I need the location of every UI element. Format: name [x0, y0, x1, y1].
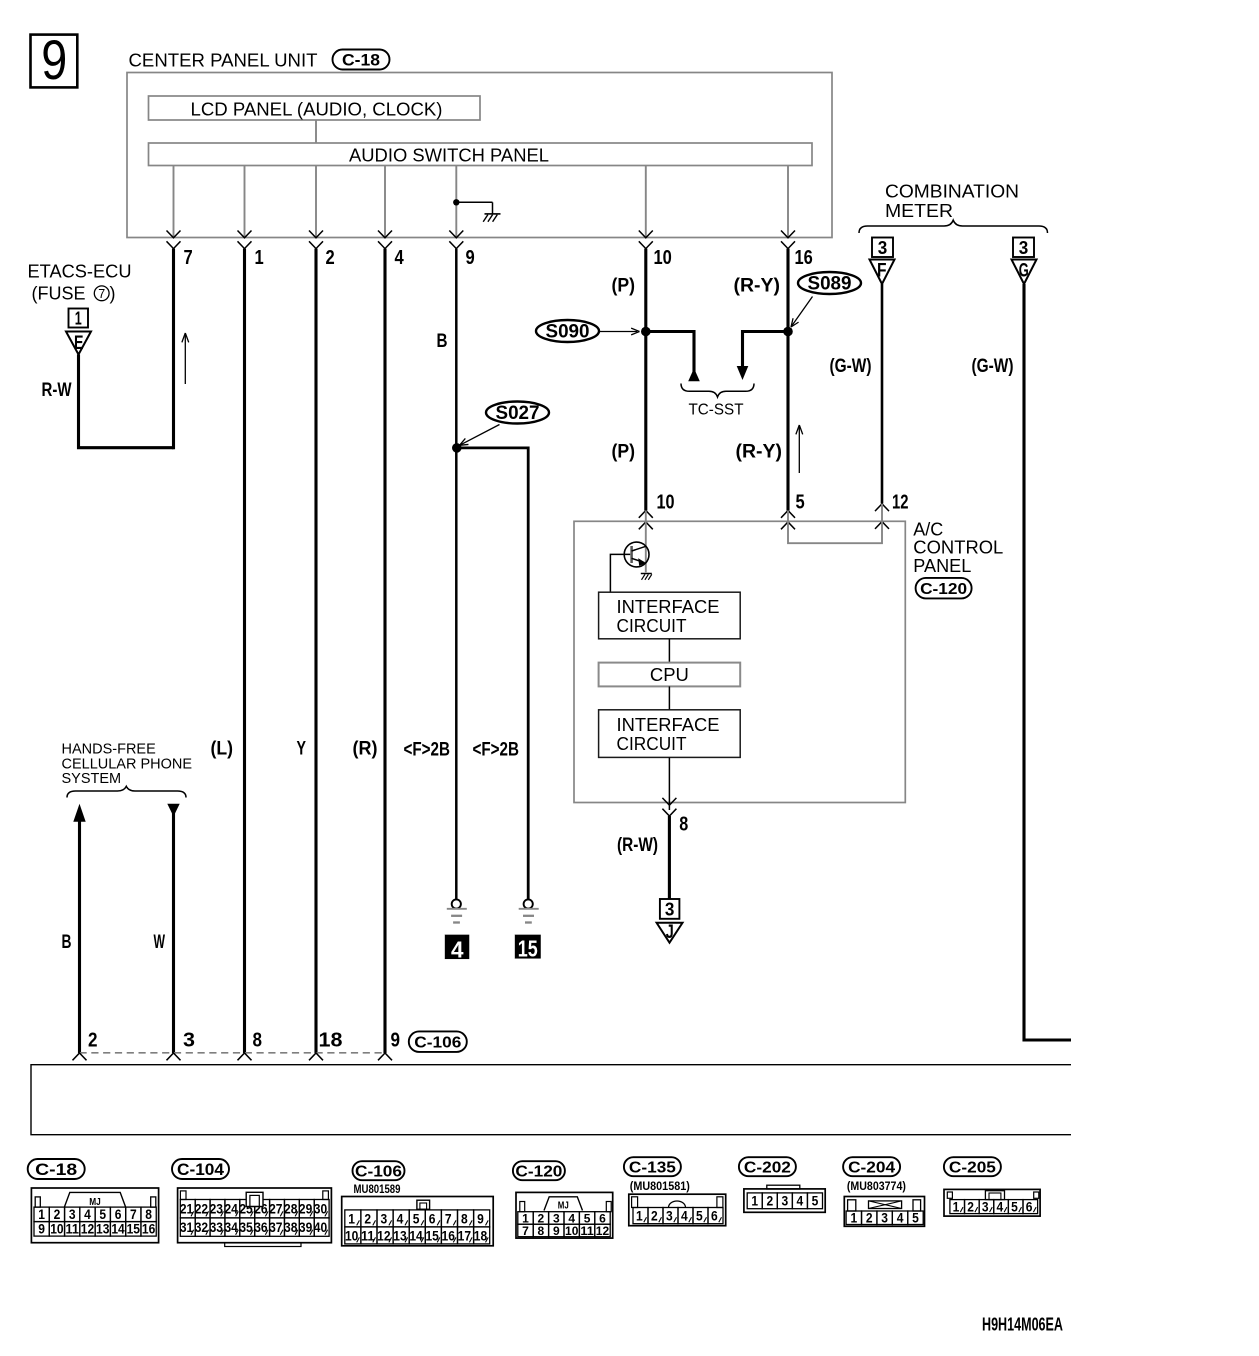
brace TC-SST [681, 384, 754, 398]
wire interface1 to CPU [668, 639, 670, 663]
ground id 15 [515, 935, 541, 959]
svg-text:(R-Y): (R-Y) [734, 276, 781, 297]
svg-text:3: 3 [1019, 238, 1029, 258]
connector C-106 pin 9 arrow [378, 1053, 392, 1060]
svg-text:7: 7 [98, 287, 105, 301]
svg-text:8: 8 [253, 1029, 263, 1051]
svg-text:10: 10 [657, 492, 675, 514]
svg-text:F: F [877, 260, 887, 281]
svg-text:2: 2 [766, 1194, 773, 1209]
svg-text:C-106: C-106 [355, 1163, 402, 1180]
wire G (G-W) long [1024, 284, 1071, 1040]
svg-text:C-18: C-18 [342, 52, 380, 70]
svg-text:11: 11 [361, 1228, 375, 1243]
svg-text:4: 4 [84, 1207, 91, 1222]
svg-text:16: 16 [795, 247, 813, 269]
svg-text:2: 2 [54, 1207, 61, 1222]
svg-text:3: 3 [381, 1211, 388, 1226]
svg-text:5: 5 [796, 492, 805, 514]
svg-text:4: 4 [681, 1208, 688, 1223]
svg-text:12: 12 [81, 1222, 94, 1237]
svg-text:6: 6 [1026, 1199, 1033, 1214]
svg-text:H9H14M06EA: H9H14M06EA [982, 1315, 1063, 1335]
svg-text:MJ: MJ [89, 1196, 101, 1208]
node S090 junction [641, 327, 651, 337]
svg-text:4: 4 [395, 247, 405, 269]
wire internal pins 5-12 link [788, 504, 882, 543]
svg-text:5: 5 [812, 1194, 819, 1209]
ground transistor (hatch) [641, 573, 652, 575]
svg-text:5: 5 [413, 1211, 420, 1226]
connector C-135 drawing [624, 1157, 681, 1176]
svg-text:14: 14 [111, 1222, 125, 1237]
svg-text:9: 9 [477, 1211, 484, 1226]
svg-text:10: 10 [565, 1224, 579, 1238]
wire hands-free W [172, 806, 175, 1053]
svg-text:1: 1 [636, 1208, 643, 1223]
svg-text:Y: Y [297, 739, 307, 760]
A/C control panel box [574, 521, 905, 802]
svg-text:C-18: C-18 [35, 1161, 77, 1179]
wire pin 9 (B) [455, 249, 458, 900]
wire internal pin feed 2 [244, 166, 246, 238]
terminal triangle G [1012, 260, 1037, 285]
wire internal ground branch [456, 201, 492, 203]
svg-text:7: 7 [522, 1224, 529, 1238]
connector 3 box J [660, 899, 680, 919]
CPU box [599, 663, 741, 687]
arrow hands-free W (down) [167, 804, 179, 817]
svg-text:(R-W): (R-W) [617, 835, 658, 856]
svg-text:<F>2B: <F>2B [404, 740, 451, 761]
svg-text:3: 3 [666, 1208, 673, 1223]
svg-text:2: 2 [967, 1199, 974, 1214]
interface circuit box 1 [599, 592, 741, 639]
svg-text:5: 5 [99, 1207, 106, 1222]
svg-text:R-W: R-W [42, 380, 72, 401]
ground id 4 [445, 935, 469, 959]
svg-text:CONTROL: CONTROL [913, 538, 1003, 558]
svg-text:2: 2 [88, 1029, 98, 1051]
svg-text:(G-W): (G-W) [830, 356, 872, 377]
connector 3 box G [1013, 238, 1034, 258]
wire TC-SST branch from S089 [743, 332, 789, 368]
connector C-104 drawing [172, 1159, 229, 1179]
svg-text:16: 16 [142, 1222, 156, 1237]
wire internal pin feed 7 [787, 166, 789, 238]
svg-text:METER: METER [885, 201, 953, 221]
connector C-18 pin 16 arrows [781, 231, 795, 238]
svg-text:18: 18 [474, 1228, 488, 1243]
svg-text:3: 3 [665, 899, 675, 919]
wire pin 1 (L) [243, 249, 246, 1053]
connector C-18 drawing [28, 1159, 85, 1179]
svg-text:A/C: A/C [913, 519, 943, 539]
svg-text:(R): (R) [353, 739, 378, 760]
interface circuit box 2 [599, 710, 741, 758]
svg-text:SYSTEM: SYSTEM [62, 771, 122, 787]
svg-text:9: 9 [391, 1029, 401, 1051]
connector C-106 pin 18 arrow [309, 1053, 323, 1060]
svg-text:HANDS-FREE: HANDS-FREE [62, 742, 157, 758]
LCD panel box [149, 96, 481, 120]
svg-text:2: 2 [326, 247, 335, 269]
svg-text:7: 7 [445, 1211, 452, 1226]
svg-text:(P): (P) [612, 442, 636, 463]
svg-text:15: 15 [425, 1228, 439, 1243]
svg-text:37: 37 [269, 1220, 282, 1235]
connector label C-18 [333, 50, 390, 70]
svg-text:3: 3 [782, 1194, 789, 1209]
connector C-120 pin 10 arrows [639, 511, 653, 518]
svg-text:PANEL: PANEL [913, 556, 971, 576]
svg-text:C-104: C-104 [177, 1161, 225, 1179]
audio switch panel box [149, 143, 813, 166]
big junction box bottom [31, 1065, 1071, 1135]
arrow hands-free B (up) [73, 804, 85, 822]
svg-text:13: 13 [96, 1222, 110, 1237]
connector label C-120 [916, 578, 972, 599]
arrow to TC-SST (down) [737, 366, 749, 380]
svg-text:3: 3 [982, 1199, 989, 1214]
svg-text:7: 7 [184, 247, 193, 269]
svg-text:4: 4 [897, 1211, 904, 1226]
wire pin 16 (R-Y) [786, 249, 789, 511]
svg-text:9: 9 [466, 247, 475, 269]
svg-text:(MU803774): (MU803774) [847, 1179, 906, 1193]
svg-text:10: 10 [345, 1228, 358, 1243]
connector C-18 pin 7 arrows [167, 231, 181, 238]
terminal triangle E [66, 332, 91, 355]
wire pin 2 (Y) [314, 249, 317, 1053]
svg-text:<F>2B: <F>2B [473, 740, 520, 761]
svg-text:(MU801581): (MU801581) [630, 1179, 690, 1193]
connector C-18 pin 9 arrows [449, 231, 463, 238]
connector C-106 pin 2 arrow [73, 1053, 87, 1060]
connector C-106 drawing [353, 1161, 405, 1180]
svg-text:C-120: C-120 [515, 1163, 562, 1180]
connector C-202 drawing [739, 1157, 796, 1176]
svg-text:6: 6 [429, 1211, 436, 1226]
splice S090 [536, 320, 599, 342]
wire pin 4 (R) [383, 249, 386, 1053]
svg-text:40: 40 [314, 1220, 327, 1235]
splice S027 [486, 402, 549, 424]
svg-text:5: 5 [1011, 1199, 1018, 1214]
connector C-120 pin 5 arrows [781, 511, 795, 518]
brace hands-free [67, 786, 186, 797]
svg-text:MJ: MJ [558, 1199, 569, 1211]
svg-text:CIRCUIT: CIRCUIT [617, 616, 687, 636]
svg-text:AUDIO SWITCH PANEL: AUDIO SWITCH PANEL [349, 146, 549, 166]
svg-text:4: 4 [451, 937, 464, 963]
svg-text:CPU: CPU [650, 665, 689, 685]
svg-text:S027: S027 [496, 403, 540, 424]
wire interface2 to pin 8 [668, 757, 670, 810]
svg-text:15: 15 [518, 936, 538, 962]
svg-text:22: 22 [195, 1202, 208, 1217]
svg-text:16: 16 [442, 1228, 456, 1243]
connector C-18 pin 2 arrows [309, 231, 323, 238]
svg-text:10: 10 [654, 247, 672, 269]
svg-text:9: 9 [38, 1222, 45, 1237]
svg-text:32: 32 [195, 1220, 208, 1235]
svg-text:CENTER PANEL UNIT: CENTER PANEL UNIT [129, 51, 318, 71]
svg-text:8: 8 [538, 1224, 545, 1238]
wire TC-SST branch from S090 [646, 332, 694, 373]
wire CPU to interface2 [668, 686, 670, 709]
svg-text:11: 11 [66, 1222, 80, 1237]
wire S027 branch [457, 448, 528, 899]
node internal ground junction [453, 199, 459, 205]
svg-text:30: 30 [314, 1202, 327, 1217]
svg-text:10: 10 [50, 1222, 63, 1237]
svg-text:S089: S089 [808, 274, 852, 295]
svg-text:LCD PANEL (AUDIO, CLOCK): LCD PANEL (AUDIO, CLOCK) [191, 100, 443, 120]
svg-text:1: 1 [751, 1194, 758, 1209]
connector C-106 pin 8 arrow [238, 1053, 252, 1060]
svg-text:2: 2 [364, 1211, 371, 1226]
svg-text:C-202: C-202 [744, 1159, 791, 1176]
svg-text:4: 4 [997, 1199, 1004, 1214]
wire R-W from ETACS to pin 7 [79, 355, 174, 448]
connector 1 box (ETACS) [69, 309, 89, 328]
svg-text:CIRCUIT: CIRCUIT [617, 734, 687, 754]
svg-text:12: 12 [892, 492, 909, 514]
svg-text:C-205: C-205 [949, 1159, 996, 1176]
connector C-120 pin 8 arrows [662, 798, 676, 805]
svg-text:B: B [437, 331, 448, 352]
svg-text:G: G [1019, 260, 1029, 281]
wire F (G-W) [881, 284, 884, 504]
connector C-205 drawing [944, 1157, 1001, 1176]
svg-text:(P): (P) [612, 276, 636, 297]
svg-text:3: 3 [881, 1211, 888, 1226]
svg-text:15: 15 [127, 1222, 141, 1237]
svg-text:3: 3 [183, 1029, 195, 1051]
svg-text:TC-SST: TC-SST [689, 402, 744, 419]
svg-text:1: 1 [75, 309, 82, 329]
svg-text:INTERFACE: INTERFACE [617, 715, 720, 735]
svg-text:C-135: C-135 [629, 1159, 676, 1176]
svg-text:(L): (L) [211, 739, 234, 760]
svg-text:9: 9 [553, 1224, 560, 1238]
connector C-18 pin 10 arrows [639, 231, 653, 238]
svg-text:8: 8 [145, 1207, 152, 1222]
terminal triangle F [870, 260, 895, 285]
svg-text:8: 8 [461, 1211, 468, 1226]
svg-text:1: 1 [38, 1207, 45, 1222]
connector C-18 pin 4 arrows [378, 231, 392, 238]
ground chassis wire 9 [452, 899, 461, 908]
wire internal pin feed 3 [315, 166, 317, 238]
svg-text:(FUSE: (FUSE [32, 284, 86, 304]
svg-text:1: 1 [348, 1211, 355, 1226]
svg-text:C-106: C-106 [414, 1035, 461, 1052]
svg-text:W: W [154, 932, 166, 953]
transistor Q1 [624, 542, 649, 567]
svg-text:B: B [62, 932, 72, 953]
connector C-120 pin 12 arrows [875, 504, 889, 511]
arrow from TC-SST (up) [688, 368, 700, 381]
svg-text:2: 2 [866, 1211, 873, 1226]
svg-text:3: 3 [69, 1207, 76, 1222]
wire internal pin feed 4 [384, 166, 386, 238]
svg-text:13: 13 [393, 1228, 407, 1243]
svg-text:(G-W): (G-W) [972, 356, 1014, 377]
svg-text:12: 12 [377, 1228, 390, 1243]
terminal triangle J (ground) [657, 923, 683, 943]
svg-text:ETACS-ECU: ETACS-ECU [28, 261, 132, 281]
svg-text:17: 17 [458, 1228, 471, 1243]
ground chassis wire S027 branch [524, 899, 533, 908]
svg-text:MU801589: MU801589 [354, 1182, 401, 1196]
node S089 junction [783, 327, 793, 337]
direction arrow up beside pin 5 wire [798, 426, 800, 473]
wire LCD panel to audio switch panel [315, 120, 317, 143]
svg-text:12: 12 [596, 1224, 610, 1238]
connector C-120 drawing [513, 1161, 565, 1180]
svg-text:5: 5 [912, 1211, 919, 1226]
splice S089 [798, 272, 861, 294]
svg-text:4: 4 [397, 1211, 404, 1226]
connector label C-106 inline [409, 1031, 467, 1052]
svg-text:5: 5 [696, 1208, 703, 1223]
svg-text:S090: S090 [546, 322, 590, 343]
svg-text:18: 18 [319, 1029, 343, 1051]
brace combination meter [859, 220, 1048, 233]
svg-text:3: 3 [878, 238, 888, 258]
dashed connector line C-106 [80, 1052, 386, 1054]
connector C-18 pin 1 arrows [238, 231, 252, 238]
svg-text:14: 14 [409, 1228, 423, 1243]
wire hands-free B [78, 821, 81, 1053]
center panel unit box [127, 73, 832, 238]
svg-text:(R-Y): (R-Y) [736, 442, 783, 463]
wire pin 10 (P) [644, 249, 647, 511]
svg-text:4: 4 [797, 1194, 804, 1209]
wire internal pin10 to transistor [645, 511, 647, 573]
svg-text:6: 6 [115, 1207, 122, 1222]
wire internal pin feed 5 [455, 166, 457, 238]
ground internal (chassis hatch) [485, 213, 501, 215]
svg-text:2: 2 [651, 1208, 658, 1223]
svg-text:COMBINATION: COMBINATION [885, 182, 1019, 202]
wire internal pin feed 1 [173, 166, 175, 238]
svg-text:1: 1 [953, 1199, 960, 1214]
svg-text:C-120: C-120 [920, 581, 967, 598]
svg-text:CELLULAR PHONE: CELLULAR PHONE [62, 756, 193, 772]
svg-text:E: E [74, 333, 84, 354]
wire transistor base to interface circuit [610, 554, 630, 592]
svg-text:29: 29 [299, 1202, 312, 1217]
svg-text:9: 9 [41, 28, 67, 91]
node S027 junction [452, 443, 462, 453]
svg-text:): ) [110, 284, 116, 304]
wire pin 7 vertical [172, 249, 175, 450]
connector C-204 drawing [843, 1157, 900, 1176]
svg-text:1: 1 [850, 1211, 857, 1226]
svg-text:8: 8 [679, 814, 688, 836]
page number 9 box [31, 35, 78, 88]
svg-text:J: J [666, 922, 674, 943]
connector C-106 pin 3 arrow [167, 1053, 181, 1060]
svg-text:1: 1 [255, 247, 264, 269]
svg-text:INTERFACE: INTERFACE [617, 597, 720, 617]
svg-text:11: 11 [580, 1224, 594, 1238]
svg-text:7: 7 [130, 1207, 137, 1222]
wire pin 8 (R-W) [668, 816, 671, 899]
connector 3 box F [872, 238, 893, 258]
svg-text:27: 27 [269, 1202, 282, 1217]
svg-text:C-204: C-204 [848, 1159, 895, 1176]
svg-text:6: 6 [711, 1208, 718, 1223]
direction arrow up beside pin 7 wire [184, 334, 186, 384]
wire internal pin feed 6 [645, 166, 647, 238]
svg-text:39: 39 [299, 1220, 312, 1235]
